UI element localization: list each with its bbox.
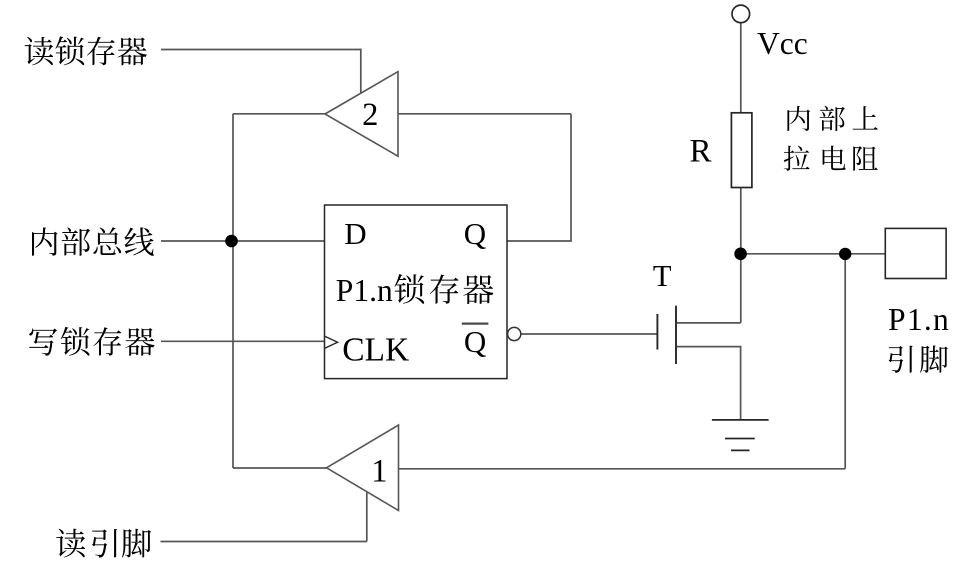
label 内部总线 (internal bus) [32,227,154,256]
transistor T (NMOS FET) [657,306,676,364]
wire buffer1 input from right rail [399,468,846,470]
pin pad box P1.n [885,228,946,278]
wire node row to pin box [741,253,886,255]
svg-text:Q: Q [464,324,486,359]
wire feedback loop vertical [570,114,572,241]
wire 读引脚 vertical to buffer1 lower edge [366,493,368,542]
Vcc terminal circle [732,5,750,23]
svg-text:1: 1 [371,453,387,489]
D latch box P1.n [325,205,508,379]
buffer U2 (read-latch tri-state buffer, points left) [325,72,398,157]
wire Qbar bubble to MOSFET gate [521,333,657,335]
label 内部上拉电阻 line1 [787,106,877,131]
overbar of Qbar [462,323,489,325]
wire 内部总线 to D input [161,240,325,242]
wire MOSFET drain [677,322,741,324]
node junction dot pin rail [839,248,851,260]
svg-text:CLK: CLK [342,331,409,368]
label 读引脚 (read pin) [56,529,151,558]
wire resistor to drain node [740,187,742,323]
node junction dot drain/pull-up [734,248,747,261]
buffer U1 (read-pin tri-state buffer, points left) [327,425,399,511]
svg-text:R: R [690,134,712,170]
wire Q output to feedback loop [507,240,572,242]
svg-text:D: D [344,216,366,251]
label 写锁存器 (write latch) [29,327,155,356]
label 锁存器 part of latch name [394,274,493,304]
svg-text:P1.n: P1.n [888,302,950,337]
resistor R (internal pull-up) [731,113,752,188]
wire left rail to buffer1 output [233,467,327,469]
wire buffer2 output to left rail [233,113,326,115]
svg-text:Q: Q [464,216,486,251]
clock edge triangle at CLK pin [325,336,338,348]
svg-text:P1.n: P1.n [336,273,393,308]
ground symbol [712,420,769,451]
wire Vcc to resistor [740,23,742,114]
svg-text:Vcc: Vcc [757,26,808,61]
label 读锁存器 (read latch) [25,36,147,65]
svg-text:T: T [653,259,672,293]
svg-text:2: 2 [362,97,378,133]
wire MOSFET source to ground [677,347,741,420]
label 内部上拉电阻 line2 [784,146,878,171]
label 引脚 (pin) under P1.n [889,345,948,372]
wire left rail vertical [232,114,234,468]
wire buffer2 input from feedback loop [398,113,571,115]
wire right rail vertical [844,254,846,469]
inversion bubble on Qbar output [508,327,521,340]
node junction dot on internal bus [225,235,238,248]
wire 读引脚 horizontal [161,541,367,543]
wire 读锁存器 vertical down to buffer 2 [360,49,362,94]
wire 读锁存器 horizontal [161,49,361,51]
wire 写锁存器 to CLK input [161,340,325,342]
